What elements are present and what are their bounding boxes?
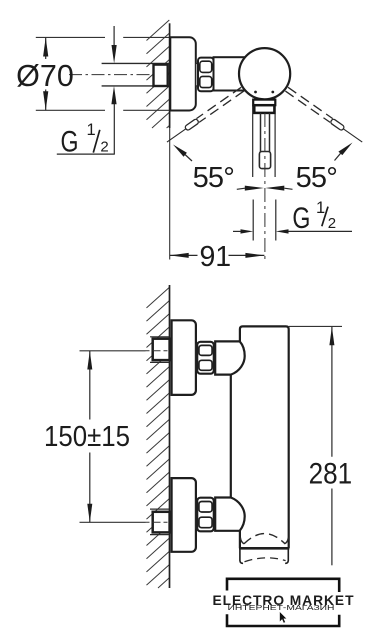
lever shaft: [261, 113, 270, 152]
pipe stub 1: [196, 344, 200, 370]
281 extension line: [289, 325, 342, 327]
G 1/2 label (left) with leader underline: [57, 153, 115, 155]
wall extension line for 91 dim: [169, 128, 171, 260]
wall hatching (bottom view): [147, 288, 170, 589]
wall surface line (bottom view): [169, 285, 171, 588]
hex nut (top view): [198, 58, 214, 92]
svg-text:1: 1: [87, 121, 96, 139]
outlet cylinder sides: [240, 548, 243, 563]
body mid-section left edge: [230, 375, 232, 498]
svg-text:55°: 55°: [193, 162, 234, 194]
in-wall socket fitting (top view): [154, 65, 168, 86]
svg-text:281: 281: [309, 458, 353, 491]
svg-text:150±15: 150±15: [44, 421, 130, 453]
hex nut 2 (bottom view): [197, 498, 214, 532]
281 dimension line and arrow: [331, 327, 333, 457]
wall surface line (top view): [169, 23, 171, 128]
main body outline (bottom view): [240, 326, 289, 548]
svg-text:ИНТЕРНЕТ-МАГАЗИН: ИНТЕРНЕТ-МАГАЗИН: [228, 605, 335, 612]
lever grip: [259, 152, 270, 169]
hidden thread dome (dashed) above shoulder: [244, 534, 285, 544]
escutcheon flange (top view): [170, 37, 196, 110]
G 1/2 dimension arrows (top view outlet): [252, 200, 254, 241]
91 dimension line with arrows: [170, 254, 198, 256]
socket fitting 1: hole lines: [150, 336, 169, 338]
lever hub collar 1: [253, 100, 275, 106]
valve body (top view): [214, 57, 252, 90]
svg-text:G: G: [292, 202, 310, 235]
svg-text:2: 2: [328, 215, 336, 232]
logo frame: [227, 579, 339, 626]
55° leader arrow right: [338, 143, 352, 156]
socket 2 centerline / 150 dim extension bottom: [80, 521, 146, 523]
handle dome circle (top view): [239, 48, 290, 99]
pipe stub between flange and nut (top view): [196, 64, 199, 86]
outlet hidden thread (dashed): [245, 558, 286, 562]
hex nut 1 (bottom view): [197, 342, 214, 374]
union lump 2: [215, 498, 245, 531]
outlet nipple silhouette lines beside lever: [252, 106, 254, 178]
svg-text:1: 1: [316, 199, 325, 217]
supply pipe (top view): [102, 63, 170, 86]
socket fitting 2: body: [153, 512, 170, 533]
svg-text:91: 91: [199, 241, 231, 273]
mouse cursor: [280, 612, 287, 623]
pipe centerline: [69, 74, 170, 76]
socket 1 centerline / 150 dim extension top: [80, 350, 146, 352]
wall hatching (top view): [147, 20, 170, 128]
outlet centerline (vertical): [264, 113, 266, 260]
dashed lever ghost swung right 55°: [285, 87, 364, 144]
svg-text:2: 2: [100, 139, 108, 156]
escutcheon flange 1 (bottom view): [172, 320, 196, 395]
pipe stub 2: [196, 500, 198, 528]
dashed lever ghost swung left 55°: [165, 87, 244, 144]
150±15 dimension line and arrows: [89, 351, 91, 420]
55° leader arrow left: [173, 145, 187, 157]
svg-text:55°: 55°: [296, 162, 337, 194]
dimension Ø70 dimension line with arrows: [45, 37, 47, 110]
dimension Ø70 extension lines: [36, 37, 169, 110]
G 1/2 arrows at pipe (left): [113, 26, 115, 46]
union lump 1: [215, 341, 245, 374]
lever hub collar 2: [254, 105, 274, 113]
svg-text:G: G: [61, 125, 79, 158]
socket fitting 2: hole lines: [150, 508, 169, 510]
55° arc arrows meeting at centerline: [237, 188, 245, 189]
socket fitting 1: body: [153, 339, 170, 360]
two screw dots on dome: [254, 91, 257, 94]
escutcheon flange 2 (bottom view): [172, 478, 196, 552]
svg-text:Ø70: Ø70: [16, 59, 74, 93]
body lower left edge: [239, 531, 241, 549]
outlet shoulder: [239, 547, 289, 550]
